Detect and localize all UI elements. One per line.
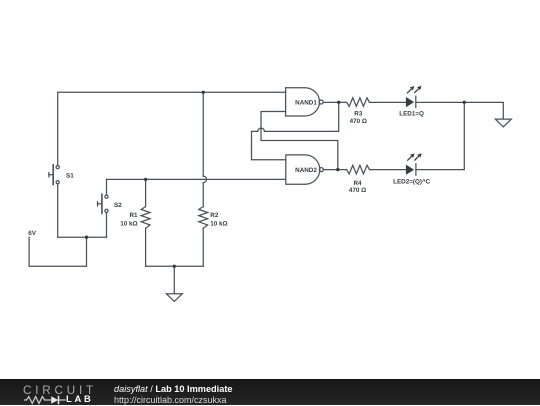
- resistor R3: [347, 98, 370, 107]
- NAND1 output wire: [323, 101, 346, 103]
- svg-text:NAND2: NAND2: [295, 167, 317, 174]
- junction dot LED line: [463, 101, 466, 104]
- NAND1 bubble: [319, 100, 323, 104]
- LED1 cathode bar: [415, 96, 417, 107]
- ground right: [495, 119, 511, 127]
- wire S2 top vertical: [106, 179, 108, 194]
- junction dot R1 top: [144, 178, 147, 181]
- svg-text:470 Ω: 470 Ω: [350, 118, 367, 125]
- wire S2 bottom vertical: [106, 213, 108, 237]
- svg-text:LED2=(Q)^C: LED2=(Q)^C: [393, 178, 431, 185]
- junction dot 6V tap: [85, 236, 88, 239]
- junction dot NAND1 out: [337, 101, 340, 104]
- LED1 arrows: [407, 89, 411, 93]
- footer bar: [0, 379, 540, 405]
- wire bottom rail R1-R2: [146, 265, 204, 267]
- LED2 cathode bar: [415, 164, 417, 175]
- wire mid rail S2/R1 to NAND2 input B: [107, 178, 286, 180]
- wire LED1 to right corner: [416, 102, 504, 119]
- svg-text:10 kΩ: 10 kΩ: [120, 220, 137, 227]
- svg-text:LED1=Q: LED1=Q: [399, 111, 424, 118]
- junction dot top rail: [202, 91, 205, 94]
- svg-text:NAND1: NAND1: [295, 99, 317, 106]
- wire top rail S1 to NAND1 input A: [58, 91, 286, 93]
- wire LED2 to junction up: [416, 102, 464, 169]
- NAND2 output wire: [323, 169, 346, 171]
- wire cross-coupling NAND2 out to NAND1 in: [261, 112, 338, 170]
- NAND1 gate body: [286, 88, 320, 116]
- wire S1 bottom vertical: [57, 184, 59, 237]
- junction dot NAND2 out: [336, 168, 339, 171]
- svg-text:R4: R4: [353, 180, 362, 187]
- resistor R2: [199, 207, 208, 229]
- wire 6V tap: [29, 237, 86, 266]
- svg-text:S2: S2: [114, 202, 122, 209]
- LED2 triangle: [406, 165, 414, 175]
- wire S1 top vertical: [57, 92, 59, 165]
- wire cross-coupling NAND1 out to NAND2 in (with hop): [264, 102, 338, 131]
- NAND2 bubble: [319, 168, 323, 172]
- svg-text:6V: 6V: [28, 230, 37, 237]
- wire R3 to LED1: [370, 101, 407, 103]
- svg-text:R1: R1: [129, 212, 138, 219]
- wire S1-S2 bottom horizontal: [58, 236, 107, 238]
- resistor R4: [347, 165, 370, 174]
- junction dot bottom rail: [173, 265, 176, 268]
- svg-text:10 kΩ: 10 kΩ: [210, 220, 227, 227]
- resistor R1: [145, 179, 147, 206]
- svg-text:R2: R2: [210, 212, 219, 219]
- wire R4 to LED2: [370, 169, 407, 171]
- LED2 arrows: [407, 156, 411, 160]
- footer titles: [114, 384, 233, 394]
- LED1 triangle: [406, 97, 414, 107]
- wire ground stem: [173, 266, 175, 293]
- NAND2 gate body: [286, 155, 320, 184]
- svg-text:R3: R3: [354, 111, 363, 118]
- svg-text:S1: S1: [66, 173, 74, 180]
- ground: [166, 294, 182, 302]
- CircuitLab logo: [23, 384, 97, 397]
- switch S2: [105, 195, 108, 198]
- wire R2 branch vertical with hop: [202, 92, 204, 176]
- switch S1: [56, 166, 59, 169]
- svg-text:470 Ω: 470 Ω: [349, 187, 366, 194]
